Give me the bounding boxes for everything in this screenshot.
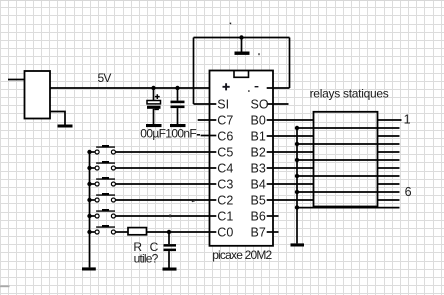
capacitor C2 100nF [171,88,185,124]
svg-text:C3: C3 [217,177,233,191]
power supply block X1 [25,71,51,119]
svg-text:C4: C4 [217,161,233,175]
svg-text:1: 1 [404,113,411,127]
svg-text:C0: C0 [217,225,233,239]
wire relay common row2 [297,143,400,145]
svg-text:6: 6 [405,185,412,199]
artifact dash bottom-left [0,285,10,287]
ground (supply) [58,125,73,128]
artifact dot near minus pin [248,90,250,92]
svg-text:5V: 5V [98,71,112,85]
svg-text:C5: C5 [217,145,233,159]
wire B3 to relay block [267,167,314,169]
wire loop right vertical [289,38,291,89]
wire C7 stub [198,119,217,121]
relay block K1 (relays statiques) [314,112,378,207]
node loop ground junction [239,35,243,39]
ground (C1) [146,124,162,127]
ground (C3) [163,268,177,271]
node rail row3 [295,158,299,162]
node rail row5 [295,190,299,194]
svg-text:SI: SI [217,97,229,111]
wire output stub row B1 [378,135,400,137]
switch S2 (C4 row) [87,161,216,170]
wire output stub row B0 [378,119,402,121]
wire output stub row B5 [378,199,400,201]
svg-text:B2: B2 [251,145,266,159]
artifact tick on C1 wire [169,214,171,217]
wire switch rail [89,152,91,267]
wire relay common row4 [297,175,400,177]
svg-text:utile?: utile? [134,251,159,265]
ground (switch rail) [82,267,96,270]
resistor R1 [128,228,147,235]
wire C6 label leader (dashed) [197,134,200,136]
wire B2 to relay block [267,151,314,153]
svg-text:SO: SO [251,97,269,111]
wire relay common row1 [297,127,400,129]
node rail row4 [295,174,299,178]
wire SI pin [194,103,217,105]
capacitor C3 (debounce) [164,232,177,268]
svg-text:B5: B5 [251,193,266,207]
node rail row6 [295,205,299,209]
wire relay common row5 [297,191,400,193]
pin label - [255,86,259,88]
svg-text:B7: B7 [251,225,266,239]
IC notch [234,71,249,78]
wire relay common row6 [297,207,400,209]
wire relay ground rail [296,128,298,243]
node 5V junction C1 [151,86,155,90]
wire loop top [194,37,290,39]
artifact tick on C2 wire [192,201,195,202]
wire 5V rail [50,87,216,89]
wire supply input [8,79,25,81]
svg-text:00µF100nF: 00µF100nF [140,127,196,141]
switch S4 (C2 row) [87,193,216,202]
wire B0 to relay block [267,119,314,121]
wire B1 to relay block [267,135,314,137]
wire relay common row3 [297,159,400,161]
svg-text:C6: C6 [217,129,233,143]
artifact dot top [230,23,232,25]
wire R1 to C0 pin [147,231,217,233]
wire SI loop vertical [193,38,195,105]
node 5V junction C2 [175,86,179,90]
wire SO stub [267,103,289,105]
svg-text:B4: B4 [251,177,266,191]
wire B7 stub [267,231,279,233]
wire output stub row B4 [378,183,400,185]
wire B4 to relay block [267,183,314,185]
ground (top loop) [235,38,250,55]
wire output stub row B2 [378,151,400,153]
node rail row1 [295,126,299,130]
svg-text:B3: B3 [251,161,266,175]
node junction R/C [167,230,171,234]
artifact dot near loop ground [258,53,260,55]
switch S1 (C5 row) [87,145,216,154]
svg-text:B0: B0 [251,113,266,127]
switch S6 (C0 row) [87,225,128,234]
pin label + [223,83,230,90]
node rail row2 [295,142,299,146]
svg-text:picaxe 20M2: picaxe 20M2 [212,248,272,262]
wire output stub row B3 [378,167,400,169]
svg-text:C2: C2 [217,193,233,207]
wire B6 stub [267,215,279,217]
svg-text:B6: B6 [251,209,266,223]
wire B5 to relay block [267,199,314,201]
svg-text:C1: C1 [217,209,233,223]
capacitor C1 100uF [147,88,161,124]
svg-text:C7: C7 [217,113,233,127]
wire supply ground stub [50,112,65,125]
svg-text:relays statiques: relays statiques [310,87,389,101]
ground (relay rail) [291,243,305,246]
switch S3 (C3 row) [87,177,216,186]
wire minus pin [267,87,290,89]
svg-text:B1: B1 [251,129,266,143]
ground (C2) [170,124,186,127]
IC U1 picaxe 20M2 body [210,71,274,246]
switch S5 (C1 row) [87,209,216,218]
